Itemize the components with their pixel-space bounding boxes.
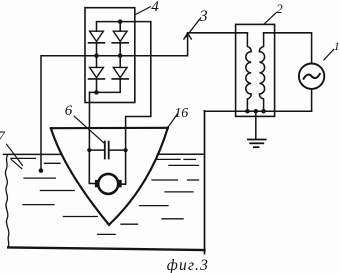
wire: bridge output (top) staircase down to vibrator right side	[121, 22, 151, 185]
bath bottom	[8, 247, 204, 250]
AC source G1	[299, 63, 324, 88]
diode D4 (bottom right)	[112, 56, 128, 79]
wire: bridge output (bottom) down to vibrator left side	[89, 92, 95, 183]
liquid dashes	[11, 158, 199, 234]
arrowhead at node 3 (open, pointing up along riser)	[184, 33, 191, 39]
ground symbol	[248, 140, 266, 148]
svg-text:2: 2	[276, 1, 283, 16]
vessel 16 outline (funnel)	[51, 128, 168, 225]
bath left wall (wavy break line)	[5, 155, 9, 247]
wire: transformer common bus	[205, 110, 312, 112]
svg-text:4: 4	[151, 0, 159, 15]
junction dot: capacitor right	[124, 148, 128, 152]
svg-text:1: 1	[334, 41, 340, 53]
wire: bridge bottom bus	[90, 79, 121, 93]
capacitor C (6)	[89, 142, 125, 159]
svg-text:фиг.3: фиг.3	[167, 257, 209, 273]
vibrator/motor M	[95, 174, 122, 194]
junction dot: capacitor left	[87, 148, 91, 152]
diode D1 (top left)	[89, 31, 105, 55]
diode bridge box 4	[85, 8, 135, 103]
leader line for label 4	[135, 7, 150, 15]
transformer winding right	[259, 33, 264, 111]
leader line for label 16	[168, 114, 178, 128]
svg-text:3: 3	[199, 8, 208, 25]
leader line for label 6	[74, 116, 104, 143]
hatch stroke at bath rim	[11, 160, 22, 169]
junction dot: left winding bottom	[245, 109, 250, 114]
transformer box 2	[236, 24, 275, 116]
diode D3 (bottom left)	[89, 56, 105, 93]
junction dot: right winding bottom	[261, 109, 266, 114]
wire: AC source bottom lead	[311, 89, 313, 111]
svg-text:16: 16	[174, 106, 188, 121]
liquid surface left segment	[4, 153, 62, 155]
transformer winding left	[246, 33, 251, 111]
wire: bridge top bus	[97, 22, 151, 32]
wire: node 3 to transformer primary	[188, 32, 248, 34]
junction dot: top bus / right column	[118, 19, 123, 24]
leader line for label 2	[264, 13, 276, 24]
junction dot: ground tap	[254, 109, 258, 114]
liquid surface right segment	[158, 153, 205, 155]
wire: AC bus from electrode through bridge middle to node 3 riser	[41, 33, 188, 170]
junction dot: middle bus / left column	[94, 53, 99, 58]
leader line for label 1	[324, 49, 334, 60]
leader line for label 3	[186, 18, 201, 37]
electrode tip in liquid	[39, 168, 44, 173]
svg-text:7: 7	[0, 128, 5, 143]
leader line for label 7	[7, 144, 23, 165]
diode D2 (top right)	[112, 22, 128, 56]
bath right wall / wire from transformer common	[204, 111, 206, 254]
junction dot: bottom bus / left column	[94, 90, 99, 95]
svg-text:6: 6	[65, 103, 73, 119]
wire: AC source top lead	[264, 33, 312, 64]
junction dot: middle bus / right column	[118, 53, 123, 58]
ground wire	[255, 111, 257, 139]
